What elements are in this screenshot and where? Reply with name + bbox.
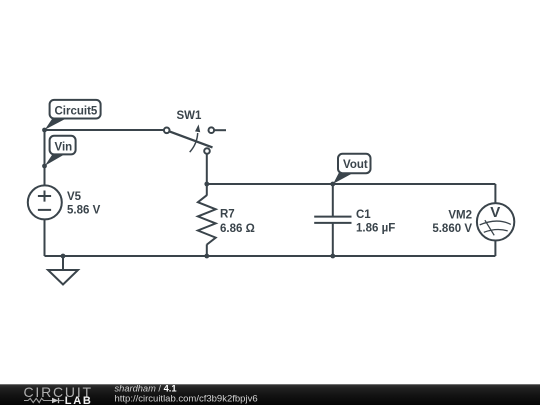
C1 bottom junction	[330, 254, 335, 259]
wire switch NC stub	[214, 129, 226, 131]
SW1 name label	[177, 110, 203, 122]
svg-text:C1: C1	[356, 209, 371, 221]
R7 top junction	[204, 182, 209, 187]
svg-text:V5: V5	[67, 191, 82, 203]
wire voltmeter top riser	[494, 184, 496, 204]
svg-text:Vout: Vout	[343, 159, 368, 171]
wire bottom rail riser to voltmeter	[494, 240, 496, 256]
V5 value label	[67, 205, 101, 217]
wire switch pole down to top rail	[206, 155, 208, 185]
C1 value label	[356, 223, 395, 235]
switch SW1	[164, 124, 214, 153]
svg-text:SW1: SW1	[177, 110, 203, 122]
svg-text:http://circuitlab.com/cf3b9k2f: http://circuitlab.com/cf3b9k2fbpjv6	[115, 393, 258, 404]
resistor R7	[198, 195, 216, 244]
wire bottom rail	[45, 255, 496, 257]
wire C1 top lead	[332, 184, 334, 216]
footer bar	[0, 384, 540, 405]
CircuitLab logo wordmark CIRCUIT	[24, 384, 93, 400]
svg-text:LAB: LAB	[65, 395, 93, 405]
R7 name label	[220, 209, 235, 221]
wire V5 bottom to bottom rail	[44, 220, 46, 257]
footer author line	[115, 383, 177, 393]
capacitor C1	[314, 217, 351, 223]
wire node A down to V5	[44, 130, 46, 185]
svg-text:Circuit5: Circuit5	[55, 105, 98, 117]
voltmeter VM2	[477, 203, 514, 240]
svg-text:1.86 µF: 1.86 µF	[356, 223, 395, 235]
svg-text:VM2: VM2	[448, 210, 472, 222]
svg-text:R7: R7	[220, 209, 235, 221]
svg-text:5.860 V: 5.860 V	[432, 223, 472, 235]
svg-text:Vin: Vin	[55, 142, 73, 154]
C1 name label	[356, 209, 371, 221]
wire R7 bottom lead	[206, 244, 208, 256]
V5 name label	[67, 191, 82, 203]
C1 top junction (Vout node)	[330, 182, 335, 187]
voltage source V5	[28, 185, 62, 219]
Vout net label	[333, 154, 370, 184]
R7 bottom junction	[204, 254, 209, 259]
wire R7 top lead	[206, 184, 208, 196]
footer url line	[115, 393, 258, 404]
wire top rail (Vout net)	[207, 183, 496, 185]
VM2 value label	[432, 223, 472, 235]
ground	[48, 270, 78, 285]
VM2 name label	[448, 210, 472, 222]
Circuit5 net label	[45, 100, 101, 130]
wire C1 bottom lead	[332, 223, 334, 256]
node A junction (Circuit5 / Vin net at switch wire)	[42, 128, 47, 133]
svg-text:shardham / 4.1: shardham / 4.1	[115, 383, 177, 393]
node Vin junction	[42, 164, 47, 169]
CircuitLab logo schematic glyph (resistor + diode)	[24, 398, 64, 403]
svg-text:6.86 Ω: 6.86 Ω	[220, 223, 255, 235]
svg-text:V: V	[490, 204, 500, 221]
svg-text:5.86 V: 5.86 V	[67, 205, 101, 217]
CircuitLab logo wordmark LAB	[65, 395, 93, 405]
Vin net label	[45, 136, 76, 166]
ground junction	[61, 254, 66, 259]
wire top node to switch	[45, 129, 165, 131]
wire ground stem	[62, 256, 64, 270]
R7 value label	[220, 223, 255, 235]
